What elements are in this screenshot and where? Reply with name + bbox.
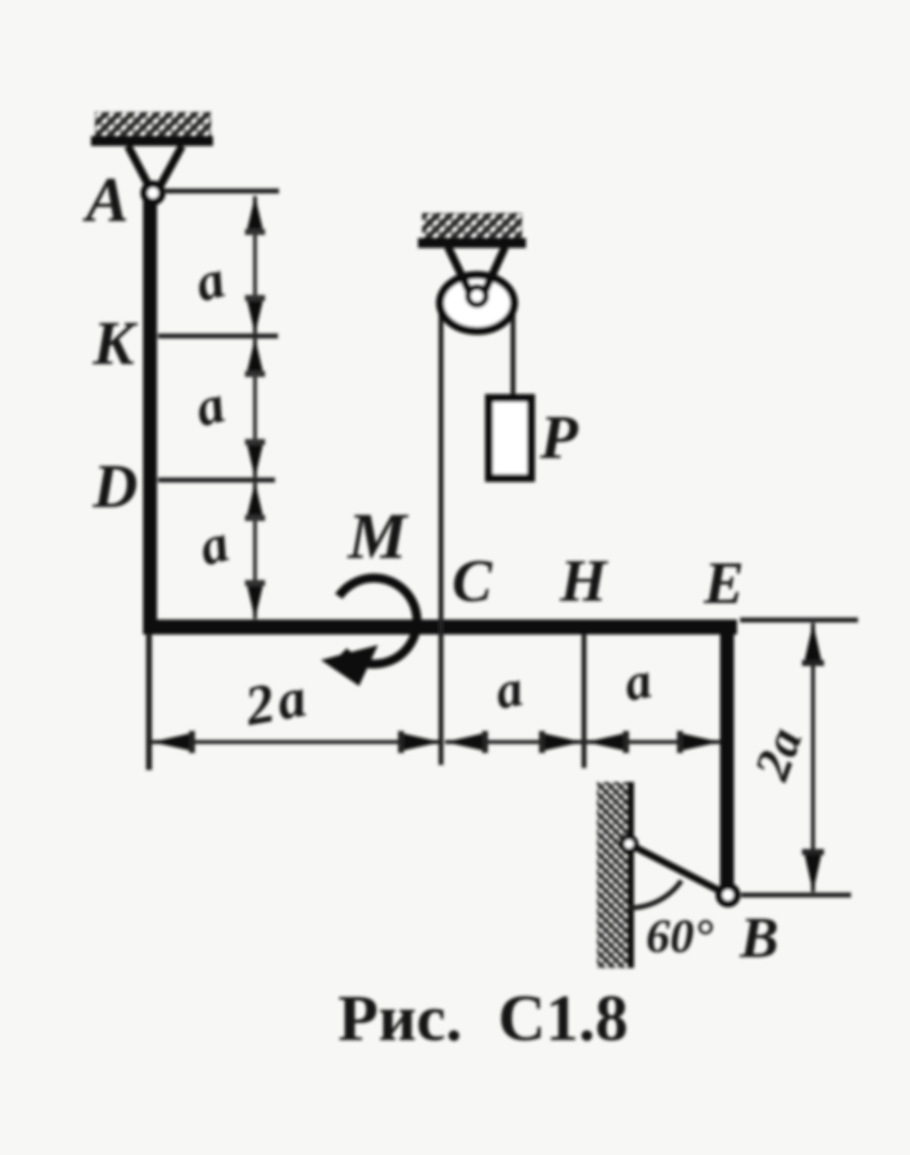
- svg-text:D: D: [92, 453, 138, 521]
- bottom dimension line C-H with arrows: [445, 731, 582, 753]
- svg-text:M: M: [347, 500, 409, 573]
- extension line below H: [582, 634, 587, 768]
- svg-text:2a: 2a: [240, 666, 315, 738]
- rope right (to P): [511, 300, 516, 398]
- moment M arc: [339, 578, 417, 664]
- extension line at A level: [164, 189, 279, 194]
- pin support A triangle: [128, 146, 182, 188]
- bottom dimension line 2a with arrows: [152, 731, 441, 753]
- svg-text:K: K: [92, 310, 138, 378]
- dimension line K-D with arrows: [245, 338, 265, 478]
- extension line right of B: [741, 893, 851, 898]
- pin A circle: [144, 184, 162, 202]
- weight P: [489, 398, 531, 478]
- rope left (to C): [439, 300, 444, 765]
- extension line right of E: [740, 618, 858, 623]
- svg-text:P: P: [539, 404, 579, 472]
- extension line at D level: [158, 478, 275, 483]
- ceiling hatch above A: [91, 112, 213, 141]
- moment M arrowhead: [321, 645, 378, 686]
- column A-K-D (vertical bar): [143, 200, 157, 634]
- horizontal beam: [143, 620, 737, 635]
- pulley pin: [468, 287, 486, 305]
- rod from wall to B: [629, 844, 726, 894]
- svg-text:60°: 60°: [646, 910, 713, 963]
- svg-text:B: B: [739, 905, 779, 970]
- wall hatch at B: [597, 782, 631, 968]
- svg-text:С1.8: С1.8: [498, 982, 628, 1055]
- bottom dimension line H-E with arrows: [586, 731, 720, 753]
- ceiling hatch above pulley: [418, 213, 526, 243]
- pin B: [719, 886, 737, 904]
- wall pin: [622, 837, 636, 851]
- right column E-B: [720, 621, 734, 888]
- svg-text:H: H: [559, 548, 609, 614]
- extension line at K level: [158, 334, 278, 339]
- dimension line D-beam with arrows: [245, 482, 265, 619]
- pulley hanger: [448, 247, 505, 293]
- svg-text:Рис.: Рис.: [338, 982, 462, 1055]
- extension line below corner: [146, 634, 152, 770]
- pulley wheel: [440, 275, 514, 331]
- svg-text:A: A: [82, 164, 129, 235]
- angle arc 60: [629, 881, 681, 908]
- svg-text:C: C: [452, 548, 493, 614]
- dimension line A-K with arrows: [245, 196, 265, 334]
- right dimension line 2a with arrows: [802, 623, 824, 892]
- svg-text:E: E: [703, 550, 744, 616]
